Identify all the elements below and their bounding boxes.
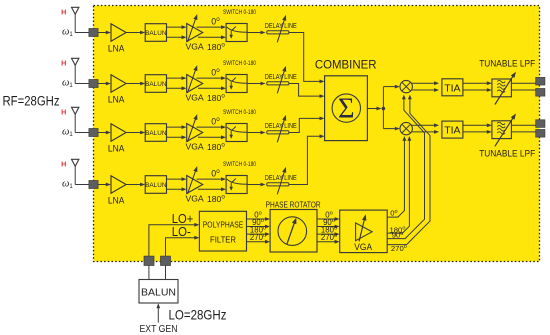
svg-text:TUNABLE LPF: TUNABLE LPF	[479, 148, 535, 159]
label VGA 180deg row 1	[186, 42, 226, 52]
svg-text:LO-: LO-	[172, 225, 191, 239]
input port square row 2	[89, 80, 98, 88]
label omega_1 row 2	[62, 78, 73, 90]
wire LNA to balun row 3	[126, 131, 145, 135]
svg-text:TIA: TIA	[444, 82, 460, 94]
svg-text:BALUN: BALUN	[141, 286, 176, 298]
wire LNA to balun row 2	[126, 82, 145, 86]
label 0deg row 1	[211, 16, 220, 26]
wire delay line to combiner row 4	[289, 134, 325, 184]
wires VGA to switch row 1	[197, 25, 227, 39]
wire LO 270deg to mixer I	[387, 95, 430, 245]
label DELAY LINE row 4	[265, 173, 297, 182]
switch row 4	[226, 176, 247, 194]
svg-text:LO=28GHz: LO=28GHz	[169, 306, 227, 322]
phase rotator	[270, 210, 317, 253]
label omega_1 row 3	[62, 127, 73, 139]
label 0deg row 4	[211, 168, 220, 178]
wire port to LNA row 2	[98, 82, 111, 86]
input port square row 3	[89, 129, 98, 137]
label TUNABLE LPF bottom	[479, 148, 535, 159]
svg-text:VGA: VGA	[186, 93, 204, 103]
mixer I	[400, 80, 412, 92]
wires mixer Q to TIA2	[412, 123, 440, 133]
wire antenna to input port row 1	[75, 32, 89, 34]
LO VGA	[340, 210, 388, 253]
label H row 1	[61, 8, 66, 17]
differential wires balun to VGA row 3	[167, 125, 187, 139]
svg-text:FILTER: FILTER	[210, 236, 236, 245]
label omega_1 row 4	[62, 179, 73, 191]
svg-text:EXT GEN: EXT GEN	[140, 324, 178, 335]
labels 0 90 180 270 (filter outputs)	[250, 210, 266, 242]
TIA 2	[442, 121, 463, 138]
svg-text:TIA: TIA	[444, 125, 460, 137]
label H row 4	[61, 160, 66, 169]
svg-text:DELAY LINE: DELAY LINE	[265, 21, 297, 30]
wires LPF2 to output pads	[511, 125, 535, 132]
label PHASE ROTATOR	[266, 200, 321, 210]
svg-text:LNA: LNA	[108, 144, 125, 154]
svg-text:PHASE ROTATOR: PHASE ROTATOR	[266, 200, 321, 210]
LO input pads	[144, 256, 171, 265]
input port square row 1	[89, 29, 98, 37]
wire LO+ to polyphase filter	[149, 223, 199, 256]
VGA row 2	[187, 65, 203, 93]
wires VGA to switch row 2	[197, 76, 227, 90]
svg-text:VGA: VGA	[186, 194, 204, 204]
wire switch to delay line row 2	[247, 82, 265, 86]
ext balun	[139, 280, 178, 304]
label COMBINER	[315, 59, 377, 71]
labels 0 90 180 270 (rotator outputs)	[321, 210, 337, 242]
wire LNA to balun row 4	[126, 183, 145, 187]
label H row 3	[61, 108, 66, 117]
wire port to LNA row 4	[98, 183, 111, 187]
label 90deg (VGA out)	[392, 231, 404, 240]
svg-text:SWITCH 0-180: SWITCH 0-180	[223, 9, 256, 16]
delay line row 4	[267, 167, 289, 194]
output pads top	[536, 77, 545, 96]
combiner (sigma)	[325, 76, 368, 141]
svg-text:DELAY LINE: DELAY LINE	[265, 72, 297, 81]
svg-text:SWITCH 0-180: SWITCH 0-180	[223, 60, 256, 67]
delay line row 1	[267, 15, 289, 42]
label DELAY LINE row 3	[265, 121, 297, 130]
svg-text:LO+: LO+	[172, 212, 194, 226]
svg-text:DELAY LINE: DELAY LINE	[265, 121, 297, 130]
svg-text:H: H	[61, 8, 66, 17]
antenna row 2	[72, 58, 79, 83]
label RF=28GHz	[3, 94, 60, 109]
balun row 4	[145, 176, 167, 194]
switch row 1	[226, 24, 247, 42]
svg-text:COMBINER: COMBINER	[315, 59, 377, 71]
wires LPF1 to output pads	[511, 83, 535, 90]
svg-text:VGA: VGA	[354, 242, 372, 253]
label VGA 180deg row 3	[186, 142, 226, 152]
svg-text:H: H	[61, 59, 66, 68]
output pads bottom	[536, 120, 545, 137]
label H row 2	[61, 59, 66, 68]
svg-text:TUNABLE LPF: TUNABLE LPF	[479, 58, 535, 69]
wires phase rotator to LO VGA	[317, 217, 340, 244]
wire junction to mixers	[383, 85, 399, 131]
TIA 1	[442, 79, 463, 96]
wires TIA1 to LPF1	[463, 81, 492, 92]
delay line row 3	[267, 115, 289, 142]
svg-text:LNA: LNA	[108, 196, 125, 206]
wire antenna to input port row 3	[75, 132, 89, 134]
wire delay line to combiner row 1	[289, 33, 325, 84]
label VGA 180deg row 2	[186, 93, 226, 103]
delay line row 2	[267, 66, 289, 93]
svg-text:VGA: VGA	[186, 142, 204, 152]
label DELAY LINE row 1	[265, 21, 297, 30]
LNA row 4	[108, 176, 126, 206]
label SWITCH 0-180 row 4	[223, 161, 256, 168]
wire LO 90deg to mixer I	[387, 95, 424, 239]
svg-text:SWITCH 0-180: SWITCH 0-180	[223, 109, 256, 116]
LNA row 3	[108, 124, 126, 154]
wires VGA to switch row 4	[197, 177, 227, 191]
svg-text:SWITCH 0-180: SWITCH 0-180	[223, 161, 256, 168]
differential wires balun to VGA row 4	[167, 177, 187, 191]
label VGA 180deg row 4	[186, 194, 226, 204]
label 0deg row 3	[211, 116, 220, 126]
svg-text:RF=28GHz: RF=28GHz	[3, 94, 60, 109]
input port square row 4	[89, 181, 98, 189]
chip boundary (dashed yellow region)	[94, 6, 540, 262]
wire switch to delay line row 4	[247, 183, 265, 187]
differential wires balun to VGA row 2	[167, 76, 187, 90]
wires VGA to switch row 3	[197, 125, 227, 139]
label LO-	[172, 225, 191, 239]
tunable LPF 2	[492, 114, 516, 147]
wire port to LNA row 1	[98, 31, 111, 35]
switch row 2	[226, 75, 247, 93]
antenna row 1	[72, 7, 79, 32]
label SWITCH 0-180 row 3	[223, 109, 256, 116]
wire ext gen to balun	[156, 303, 160, 322]
label EXT GEN	[140, 324, 178, 335]
label omega_1 row 1	[62, 27, 73, 39]
wires LO pads to ext balun	[149, 266, 166, 280]
label 0deg (VGA out)	[390, 209, 397, 218]
label 0deg row 2	[211, 67, 220, 77]
svg-text:BALUN: BALUN	[145, 30, 167, 37]
mixer Q	[400, 122, 412, 134]
label 270deg (VGA out)	[391, 244, 407, 253]
wires polyphase filter to phase rotator	[247, 217, 271, 244]
tunable LPF 1	[492, 72, 516, 105]
svg-text:BALUN: BALUN	[145, 81, 167, 88]
wire antenna to input port row 2	[75, 83, 89, 85]
label SWITCH 0-180 row 2	[223, 60, 256, 67]
svg-text:LNA: LNA	[108, 44, 125, 54]
svg-text:H: H	[61, 108, 66, 117]
LNA row 2	[108, 75, 126, 105]
wire delay line to combiner row 3	[289, 117, 325, 133]
label LO+	[172, 212, 194, 226]
svg-text:H: H	[61, 160, 66, 169]
VGA row 1	[187, 14, 203, 42]
VGA row 4	[187, 166, 203, 194]
wire delay line to combiner row 2	[289, 84, 325, 99]
VGA row 3	[187, 114, 203, 142]
balun row 2	[145, 75, 167, 93]
wire LO 180deg to mixer Q	[387, 136, 411, 233]
wires mixer I to TIA1	[412, 81, 440, 92]
antenna row 4	[72, 159, 79, 184]
label SWITCH 0-180 row 1	[223, 9, 256, 16]
wire LO 0deg to mixer Q	[387, 136, 406, 217]
balun row 3	[145, 124, 167, 142]
wire combiner output to junction	[367, 107, 385, 111]
balun row 1	[145, 24, 167, 42]
svg-text:BALUN: BALUN	[145, 182, 167, 189]
wire LO- to polyphase filter	[166, 236, 200, 256]
label LO=28GHz	[169, 306, 227, 322]
switch row 3	[226, 124, 247, 142]
LNA row 1	[108, 24, 126, 54]
label TUNABLE LPF top	[479, 58, 535, 69]
antenna row 3	[72, 107, 79, 132]
wire port to LNA row 3	[98, 131, 111, 135]
svg-text:BALUN: BALUN	[145, 130, 167, 137]
wire switch to delay line row 3	[247, 131, 265, 135]
svg-text:VGA: VGA	[186, 42, 204, 52]
wire LNA to balun row 1	[126, 31, 145, 35]
svg-text:Σ: Σ	[338, 94, 355, 125]
svg-text:LNA: LNA	[108, 95, 125, 105]
label DELAY LINE row 2	[265, 72, 297, 81]
svg-text:DELAY LINE: DELAY LINE	[265, 173, 297, 182]
differential wires balun to VGA row 1	[167, 25, 187, 39]
svg-text:POLYPHASE: POLYPHASE	[203, 221, 244, 230]
label 180deg (VGA out)	[390, 225, 406, 234]
polyphase filter	[199, 211, 246, 251]
wire switch to delay line row 1	[247, 31, 265, 35]
wire antenna to input port row 4	[75, 184, 89, 186]
wires TIA2 to LPF2	[463, 123, 492, 133]
